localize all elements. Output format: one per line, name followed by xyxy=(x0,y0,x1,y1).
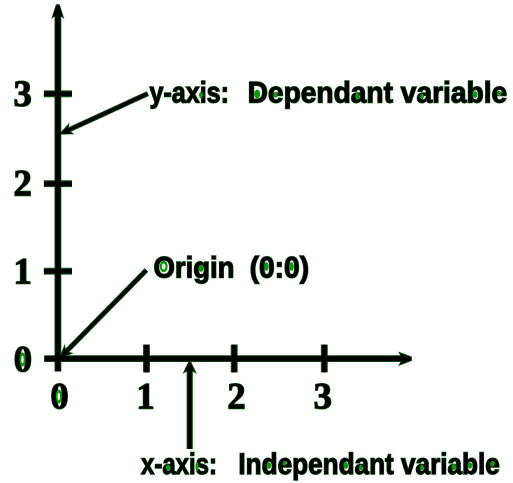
svg-text:2: 2 xyxy=(13,163,31,204)
svg-text:x-axis:: x-axis: xyxy=(141,448,217,481)
svg-text:Independant variable: Independant variable xyxy=(238,448,499,481)
svg-text:(0:0): (0:0) xyxy=(250,251,310,284)
svg-text:2: 2 xyxy=(227,376,245,417)
svg-text:y-axis:: y-axis: xyxy=(150,77,230,110)
svg-text:3: 3 xyxy=(314,376,332,417)
svg-text:Dependant variable: Dependant variable xyxy=(248,77,508,110)
svg-text:1: 1 xyxy=(136,376,154,417)
svg-text:1: 1 xyxy=(13,250,31,291)
svg-text:3: 3 xyxy=(13,73,31,114)
